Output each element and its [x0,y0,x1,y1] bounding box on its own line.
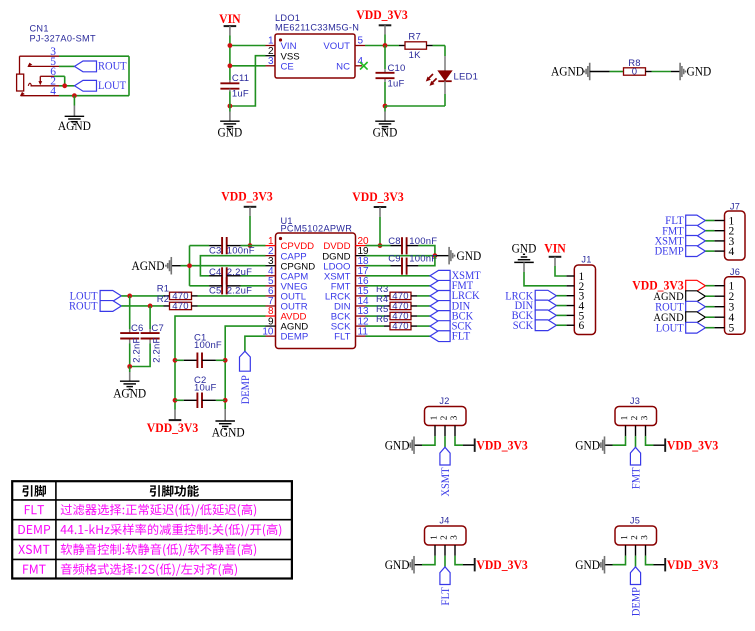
junction VDD CPVDD row [248,243,253,248]
svg-text:CE: CE [281,61,294,72]
J7 pin 4 [714,246,734,258]
capacitor C6 [120,333,139,338]
svg-text:FLT: FLT [334,332,350,343]
svg-text:C9: C9 [388,254,401,265]
wire J4 pin1 to GND [414,556,435,565]
svg-text:J4: J4 [439,515,449,525]
capacitor C3 label [209,246,222,257]
wire C9 up to DGND junction [418,256,435,266]
junction CE row [228,63,233,68]
net label XSMT at J2 [440,447,452,496]
connector J4 body [425,526,467,545]
svg-text:4: 4 [50,85,56,97]
wire ROUT to R2 [121,305,163,307]
wire to AGND under C6 [129,367,131,382]
net label DEMP at J5 [630,567,642,616]
net label FMT right of U1 [430,280,473,292]
table row XSMT function cell [61,543,256,556]
svg-text:R7: R7 [408,31,421,42]
svg-text:5: 5 [358,36,364,47]
wire VOUT to junction [365,45,399,47]
net label VDD_3V3 at J6 [632,278,705,292]
wire C10 rail [384,46,386,107]
J6 pin 3 [714,302,734,314]
wire left bypass rail [189,246,191,286]
ground GND under C11 [218,121,243,139]
wire FLT to J7 pin 1 [705,220,714,222]
wire LRCK to J1 pin 3 [556,295,566,297]
connector J3 body [615,407,657,426]
wire J2 pin2 to XSMT flag [444,436,446,447]
ground GND at J5 [575,556,604,574]
connector J4 designator [439,515,449,525]
LED LED1 label [454,72,479,83]
svg-text:VDD_3V3: VDD_3V3 [476,558,527,572]
table header cell 引脚功能 [150,485,199,497]
capacitor C7 label [151,323,164,334]
svg-text:GND: GND [373,126,398,140]
wire AGND to J6 pin 2 [705,295,714,297]
svg-text:LDO1: LDO1 [275,13,300,23]
junction C1 left [173,358,178,363]
wire CN1 to AGND [73,96,75,116]
wire LOUT to R1 [121,295,163,297]
wire AGND row to right rail [225,326,265,409]
U1 pin 9 AGND [266,316,309,332]
svg-text:6: 6 [579,320,585,332]
svg-text:2.2nF: 2.2nF [152,338,163,363]
svg-text:ROUT: ROUT [98,61,127,73]
svg-text:LOUT: LOUT [656,322,684,334]
net label SCK right of U1 [430,320,473,332]
svg-text:DEMP: DEMP [655,246,684,258]
capacitor C4 [209,267,240,284]
svg-text:DEMP: DEMP [630,587,642,616]
U1 pin 7 OUTR [266,296,308,312]
capacitor C11 value 1uF [232,89,249,100]
capacitor C11 [220,80,239,106]
U1 pin 10 DEMP [262,326,308,342]
U1 pin 8 AVDD [266,306,307,322]
wire J3 pin1 to GND [605,436,626,445]
svg-text:VDD_3V3: VDD_3V3 [352,190,403,204]
net label FLT right of U1 [430,330,470,342]
svg-text:470: 470 [172,301,188,312]
J7 pin 1 [714,215,734,227]
wire ROUT to J6 pin 3 [705,306,714,308]
table header cell 引脚 [22,485,46,497]
svg-text:FLT: FLT [452,330,471,342]
table row FMT pin cell [23,565,46,574]
capacitor C3 [209,237,240,254]
J6 pin 2 [714,291,734,303]
net label DIN right of U1 [430,300,470,312]
wire C4 to CAPM pin [241,275,266,277]
wire AVDD row to left rail [175,316,266,409]
resistor R2 [164,301,198,312]
net label AGND at J6 [653,312,705,324]
ground AGND below C2 [212,421,245,439]
J5 pin 1 [621,536,627,556]
wire FMT row [366,285,431,287]
svg-text:C8: C8 [388,236,401,247]
junction below C10 [383,104,388,109]
svg-text:R2: R2 [157,294,170,305]
net label XSMT at J7 [655,236,706,248]
table pin function outer border [12,481,292,578]
junction C7 tap [148,304,153,309]
U1 pin 2 CAPP [266,246,307,262]
LDO1 pin 2 VSS [266,46,300,62]
svg-text:R6: R6 [376,314,389,325]
connector CN1 pin number 6 [50,66,56,78]
connector J1 designator [581,254,591,264]
U1 pin 14 DIN [334,296,369,312]
U1 pin 18 LDOO [323,256,369,272]
J6 pin 1 [714,281,734,293]
capacitor C2 value 10uF [194,383,216,394]
junction on AGND wire [72,93,77,98]
U1 pin 19 DGND [322,246,369,262]
svg-text:CN1: CN1 [30,24,49,34]
table grid lines [12,481,292,578]
table row DEMP function cell [60,524,281,537]
net label DIN at J1 [515,300,557,312]
wire CN1 pin3 to right rail [59,55,129,57]
net label AGND at J6 [653,291,705,303]
junction C6 C7 ground node [127,364,132,369]
svg-text:NC: NC [336,61,350,72]
ground AGND under CN1 [58,116,91,133]
capacitor C9 label [388,254,401,265]
U1 pin 12 SCK [331,316,369,332]
wire VIN to J1 pin1 [555,257,566,276]
svg-text:J1: J1 [581,254,591,264]
wire R7 to LED [433,46,446,71]
junction C2 right [223,398,228,403]
J1 pin 6 [566,320,584,332]
svg-text:ROUT: ROUT [69,301,98,313]
capacitor C2 label [194,375,207,386]
capacitor C10 value [388,79,405,90]
junction on LOUT wire [62,83,67,88]
connector J5 body [615,526,657,545]
U1 pin 11 FLT [334,326,368,342]
regulator LDO1 designator [275,13,359,33]
net label LRCK right of U1 [430,290,480,302]
power VIN at J1 [544,241,566,256]
J4 pin 2 [441,536,447,556]
table row FMT function cell [61,563,237,576]
capacitor C10 label [388,63,406,74]
net label FMT at J7 [662,225,705,237]
svg-text:VDD_3V3: VDD_3V3 [147,421,198,435]
U1 pin 5 VNEG [266,276,308,292]
J2 pin 2 [441,416,447,436]
J3 pin 2 [631,416,637,436]
capacitor C3 value 100nF [227,246,255,257]
resistor R4 label [376,294,389,305]
svg-text:470: 470 [392,321,408,332]
connector J7 designator [730,201,740,211]
power VIN at LDO input [219,12,241,26]
net label BCK right of U1 [430,310,474,322]
wire VIN rail to C11 [229,66,231,80]
connector CN1 pin number 5 [50,56,56,68]
wire to VDD_3V3 below C2 [174,410,176,421]
table row XSMT pin cell [18,545,49,554]
svg-text:10uF: 10uF [194,383,216,394]
capacitor C8 value 100nF [409,236,437,247]
connector J5 designator [630,515,640,525]
J6 pin 5 [714,323,734,335]
connector CN1 pin number 3 [50,46,56,58]
junction DVDD row [378,243,383,248]
wire right rail down [128,56,130,95]
wire C5 to VNEG pin [241,285,266,287]
capacitor C4 value 2.2uF [227,267,252,278]
connector CN1 pin number 2 [50,75,56,87]
wire DVDD row [366,245,391,247]
junction DGND [433,253,438,258]
resistor R1 label [157,284,170,295]
wire SCK to J1 pin 6 [556,324,566,326]
capacitor C7 [141,333,160,338]
connector J2 designator [439,396,449,406]
resistor R8 label [628,58,641,69]
svg-text:VDD_3V3: VDD_3V3 [667,558,718,572]
wire J5 pin2 to DEMP flag [635,556,637,567]
junction VIN row [228,43,233,48]
table row FLT pin cell [25,505,44,514]
net label SCK at J1 [513,320,557,332]
LDO1 pin 5 VOUT [323,36,365,52]
power VDD_3V3 at J4 [475,558,528,572]
capacitor C1 value 100nF [194,340,222,351]
svg-text:GND: GND [575,558,600,572]
wire LDOO row [366,265,391,267]
power VDD_3V3 at J5 [665,558,718,572]
svg-text:PJ-327A0-SMT: PJ-327A0-SMT [30,34,96,44]
wire CN1 pin6 jumper [54,76,65,86]
U1 pin 17 XSMT [324,266,369,282]
svg-text:GND: GND [457,249,482,263]
svg-text:5: 5 [729,323,735,335]
junction C1 right [223,358,228,363]
wire J2 pin1 to GND [414,436,435,445]
wire C3 to left rail [190,245,210,247]
resistor R5 label [376,304,389,315]
capacitor C6 label [131,323,144,334]
J3 pin 3 [641,416,647,436]
J1 pin 1 [566,271,584,283]
junction below C11 [228,104,233,109]
svg-text:PCM5102APWR: PCM5102APWR [281,224,353,234]
IC U1 designator [281,216,353,234]
junction CPGND rail [187,263,192,268]
capacitor C6 value 2.2nF rotated [131,338,142,363]
wire FLT row [366,335,431,337]
resistor R6 [366,321,431,332]
svg-text:GND: GND [385,558,410,572]
junction C2 left [173,398,178,403]
junction VOUT [383,43,388,48]
svg-text:1uF: 1uF [388,79,405,90]
IC U1 PCM5102APWR body [276,233,356,349]
J2 pin 3 [451,416,457,436]
svg-text:3: 3 [268,56,274,67]
svg-text:SCK: SCK [513,320,534,332]
J5 pin 3 [641,536,647,556]
U1 pin 13 BCK [331,306,369,322]
svg-text:VIN: VIN [544,241,566,255]
net label ROUT at J6 [655,301,705,313]
resistor R8 value 0 [624,67,646,78]
net label DEMP at J7 [655,246,706,258]
capacitor C4 label [209,267,222,278]
ground GND at J3 [575,436,604,454]
svg-text:1K: 1K [409,50,421,61]
svg-text:AGND: AGND [212,425,245,439]
resistor R7 value 1K [409,50,421,61]
table row FLT function cell [61,504,256,517]
svg-text:FMT: FMT [630,467,642,489]
LDO1 pin 1 VIN [266,36,297,52]
svg-text:J3: J3 [630,396,640,406]
connector CN1 designator label [30,24,96,44]
resistor R6 label [376,314,389,325]
resistor R5 [366,311,431,322]
capacitor C8 label [388,236,401,247]
wire VDD stem to DVDD row [379,207,381,246]
connector CN1 pin number 4 [50,85,56,97]
svg-text:J5: J5 [630,515,640,525]
wire XSMT row [366,275,431,277]
wire FMT to J7 pin 2 [705,230,714,232]
svg-text:LOUT: LOUT [98,80,126,92]
LDO1 pin 4 NC with no-connect cross [336,56,367,72]
svg-text:100nF: 100nF [409,254,437,265]
net label FLT at J4 [440,567,452,606]
wire LOUT to J6 pin 5 [705,327,714,329]
svg-text:1uF: 1uF [232,89,249,100]
connector J6 body [725,277,746,335]
svg-text:C4: C4 [209,267,222,278]
J2 pin 1 [431,416,437,436]
net label LOUT at J6 [656,322,706,334]
svg-text:AGND: AGND [551,65,584,79]
resistor R3 [366,291,431,302]
regulator LDO1 ME6211C33M5G-N body [275,34,355,78]
svg-text:C5: C5 [209,285,222,296]
capacitor C2 [175,393,225,409]
resistor R7 [399,42,433,49]
capacitor C7 value 2.2nF rotated [152,338,163,363]
svg-text:VDD_3V3: VDD_3V3 [356,8,407,22]
wire DEMP pin to flag [245,336,266,351]
svg-text:FLT: FLT [440,587,452,606]
svg-text:J2: J2 [439,396,449,406]
J3 pin 1 [621,416,627,436]
wire DEMP to J7 pin 4 [705,250,714,252]
capacitor C8 [391,237,419,254]
U1 pin 16 FMT [331,276,369,292]
wire J5 pin3 to VDD_3V3 [646,556,666,565]
wire J4 pin2 to FLT flag [444,556,446,567]
svg-text:2.2uF: 2.2uF [227,285,252,296]
wire C10 to GND [384,106,386,121]
wire CN1 pin2 to LOUT flag [59,85,75,87]
resistor R1 [164,291,198,302]
capacitor C11 label [232,73,249,84]
svg-text:J6: J6 [730,267,740,277]
J7 pin 3 [714,236,734,248]
wire C6 rail [129,296,131,367]
capacitor C5 label [209,285,222,296]
svg-text:AGND: AGND [58,119,91,133]
wire pin1 VIN row [230,45,266,47]
svg-text:GND: GND [385,438,410,452]
power VDD_3V3 at LDO output [356,8,407,25]
U1 pin 1 CPVDD [266,236,315,252]
wire pin2 VSS return [230,56,266,106]
capacitor C9 value 100nF [409,254,437,265]
wire to AGND below C2 [224,409,226,421]
wire DGND row [366,255,435,257]
wire C7 rail [130,306,150,367]
net label FLT at J7 [665,215,705,227]
connector J2 body [425,407,467,426]
svg-text:VDD_3V3: VDD_3V3 [221,190,272,204]
svg-text:2.2nF: 2.2nF [131,338,142,363]
net label ROUT at CN1 [75,61,127,73]
wire BCK to J1 pin 5 [556,314,566,316]
svg-text:C7: C7 [151,323,164,334]
connector J6 designator [730,267,740,277]
connector J7 body [725,211,746,260]
wire VIN rail [229,46,231,66]
svg-text:4: 4 [729,246,735,258]
resistor R2 label [157,294,170,305]
power VDD_3V3 above C3 [221,190,272,207]
svg-text:C11: C11 [232,73,249,84]
wire AGND to R8 [590,71,624,73]
junction C6 tap [127,294,132,299]
wire DIN to J1 pin 4 [556,305,566,307]
svg-text:100nF: 100nF [194,340,222,351]
connector CN1 jack symbol [17,56,59,96]
wire CPGND row [181,265,266,267]
wire C5 row from rail [190,285,210,287]
svg-text:VIN: VIN [219,12,241,26]
J5 pin 2 [631,536,637,556]
wire CPVDD row left segment [241,245,266,247]
wire LED to GND rail [385,81,445,106]
svg-text:DEMP: DEMP [240,375,252,404]
power VDD_3V3 above DVDD [352,190,403,207]
ground AGND flag at CPGND [132,257,181,275]
resistor R3 label [376,284,389,295]
wire J5 pin1 to GND [605,556,626,565]
wire R8 to GND [646,71,681,73]
J1 pin 2 [566,281,584,293]
net label LRCK at J1 [505,290,556,302]
power VDD_3V3 below C2 [147,420,198,435]
svg-text:C10: C10 [388,63,406,74]
ground GND under C10 [373,121,398,139]
svg-text:VDD_3V3: VDD_3V3 [476,439,527,453]
svg-text:GND: GND [512,241,537,255]
